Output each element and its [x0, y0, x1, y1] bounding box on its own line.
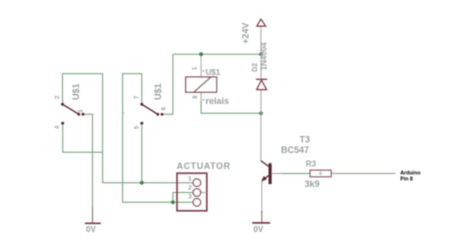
svg-text:U$1: U$1 [71, 83, 81, 100]
actuator pad 1 [193, 179, 201, 187]
transistor T3 emitter arrow [261, 176, 267, 182]
junction at relay pin1 [199, 52, 203, 56]
actuator connector box [177, 173, 207, 211]
wire SW1 pin3 right then down to ground [83, 114, 93, 208]
transistor T3 collector slant [261, 161, 269, 167]
relay coil diagonal [194, 77, 211, 92]
switch U$1 contact A pin2 dot [61, 103, 64, 106]
relay coil U$1 box [186, 77, 217, 92]
pin T3 emitter [261, 181, 263, 213]
switch U$1 contact A arm end dot [77, 113, 80, 116]
pin relay coil 8 [200, 92, 202, 101]
svg-text:3: 3 [188, 193, 192, 200]
switch U$1 contact A arm [63, 104, 79, 114]
svg-text:3k9: 3k9 [305, 179, 320, 189]
wire jog up to actuator pin2 [173, 193, 193, 203]
resistor R3 origin cross [318, 171, 322, 175]
relay name origin tick [202, 70, 204, 72]
svg-text:0V: 0V [86, 225, 96, 234]
switch U$1 contact A pin3 dot [82, 113, 85, 116]
svg-text:ACTUATOR: ACTUATOR [177, 161, 231, 171]
svg-text:U$1: U$1 [206, 68, 221, 77]
relay value origin tick [202, 99, 204, 101]
wire SW2 pin5 down to actuator pin1 row [141, 125, 143, 183]
wire SW2 pin7 up, across left, down to actuator pin3 row [123, 74, 194, 203]
svg-text:R3: R3 [306, 159, 317, 168]
ground 0V right stub [261, 211, 263, 223]
resistor R3 box [310, 170, 331, 177]
wire relay pin8 down-right to diode junction [201, 101, 261, 113]
+24V supply arrow [257, 19, 266, 26]
wire SW1 pin4 L-shape to right leg [63, 125, 103, 152]
pin +24V supply [260, 26, 262, 54]
junction at +24V rail [259, 52, 263, 56]
svg-text:T3: T3 [300, 135, 311, 145]
pin D2 cathode [260, 54, 262, 79]
switch U$1 contact B arm end dot [156, 113, 159, 116]
transistor T3 emitter slant [262, 176, 268, 181]
pin T3 collector [260, 113, 262, 161]
pin actuator 2 stub [201, 192, 206, 194]
transistor T3 base bar [269, 163, 272, 184]
switch U$1 contact B pin6 dot [161, 113, 164, 116]
svg-text:relais: relais [206, 96, 230, 106]
svg-text:D2: D2 [252, 63, 259, 72]
svg-text:BC547: BC547 [281, 145, 309, 155]
wire T3 base to R3 [282, 173, 310, 175]
ground 0V left stub [92, 207, 94, 223]
wire SW2 pin6 right then up to +24V rail [162, 54, 261, 114]
ground 0V right bar [252, 222, 270, 224]
svg-text:0V: 0V [253, 225, 263, 234]
pin T3 base [272, 173, 282, 175]
junction actuator pin2/3 jog [171, 200, 175, 204]
SW2 origin cross [121, 111, 125, 115]
svg-text:+24V: +24V [240, 23, 250, 44]
svg-text:U$1: U$1 [153, 83, 163, 100]
junction SW2 pin5 / actuator pin1 row [140, 181, 144, 185]
wire R3 to Arduino pin 8 [331, 173, 396, 175]
diode D2 cathode bar [256, 78, 267, 80]
svg-text:1: 1 [188, 176, 192, 183]
switch U$1 contact B arm [142, 104, 158, 114]
svg-text:1N4004: 1N4004 [259, 42, 268, 71]
svg-text:Pin 8: Pin 8 [400, 176, 413, 182]
junction diode anode / collector [259, 111, 263, 115]
switch U$1 contact B pin7 dot [140, 103, 143, 106]
actuator pad 2 [193, 189, 201, 197]
pin D2 anode [260, 90, 262, 114]
diode D2 triangle [257, 80, 267, 90]
wire SW1 pin2 up, across, right leg down to actuator pin1 row [63, 74, 194, 183]
actuator pad 3 [193, 199, 201, 207]
switch U$1 contact A pin4 dot [61, 122, 64, 125]
pin relay coil 1 [200, 56, 202, 77]
svg-text:2: 2 [188, 185, 192, 192]
ground 0V left bar [85, 222, 101, 224]
switch U$1 contact B pin5 dot [140, 122, 143, 125]
